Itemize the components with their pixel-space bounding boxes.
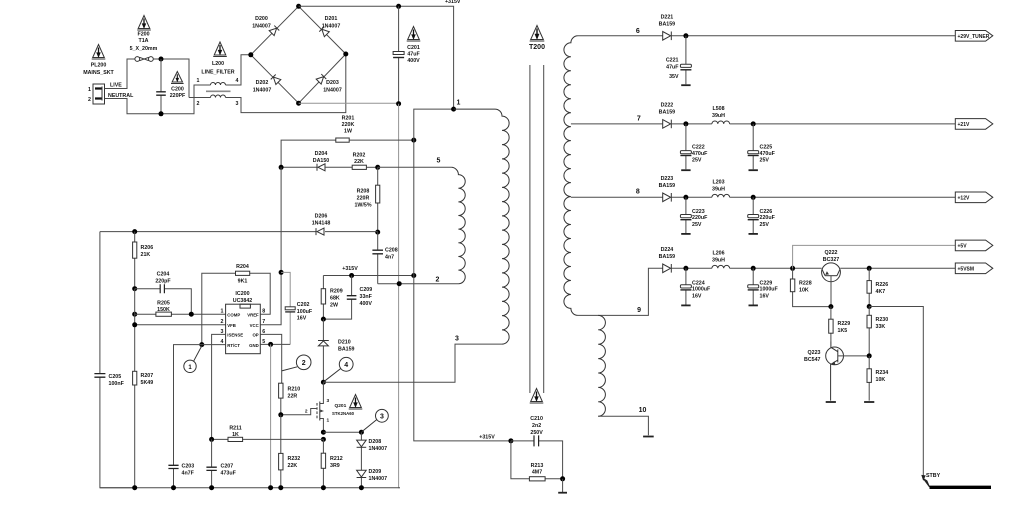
svg-text:C207: C207 [221,464,234,470]
svg-text:VFB: VFB [227,323,236,328]
svg-text:STBY: STBY [926,473,941,479]
svg-text:7: 7 [637,116,641,123]
wire bridge edges [251,6,346,103]
svg-text:R205: R205 [157,301,170,307]
svg-text:BA159: BA159 [659,183,676,189]
svg-text:LIVE: LIVE [110,83,122,89]
resistor R230 [867,307,871,356]
transformer T200 core [530,65,544,393]
svg-text:D204: D204 [315,151,328,157]
diode D203 [316,74,326,84]
wire live to filter pin2 [189,97,211,99]
wire +5V rail mid [730,267,822,269]
svg-text:1N4007: 1N4007 [322,24,341,30]
ground C226 [749,233,758,235]
wire R201 right [349,139,414,141]
svg-text:35V: 35V [669,74,679,80]
junction primary pin1 [451,107,456,112]
svg-text:BA159: BA159 [659,110,676,116]
wire filter pin4 to bridge [226,55,251,85]
transistor Q201 warning triangle [349,395,363,410]
junction Q223 base [867,353,872,358]
transistor Q201 MOSFET [317,382,323,432]
resistor R205 [135,312,226,316]
wire +29V rail [671,35,955,37]
svg-text:D202: D202 [256,80,269,86]
junction C202 tap [279,270,284,275]
junction gate node [278,412,283,417]
svg-text:1N4148: 1N4148 [312,221,331,227]
resistor R207 [133,371,137,487]
IC U200 box [226,304,261,354]
inductor L200 bottom coil [211,95,226,98]
svg-text:1W: 1W [344,129,352,135]
svg-text:100uF: 100uF [297,309,313,315]
resistor R210 [279,383,283,415]
svg-text:1: 1 [327,418,330,424]
capacitor C210 [511,435,563,478]
svg-text:VCC: VCC [250,323,259,328]
svg-text:10K: 10K [876,377,886,383]
svg-text:R206: R206 [141,245,154,251]
flag +5VSM [955,263,993,274]
svg-text:D209: D209 [369,469,382,475]
svg-text:PL200: PL200 [91,63,107,69]
svg-text:Q201: Q201 [335,403,347,409]
svg-text:BC327: BC327 [823,257,840,263]
node STBY arrow [922,476,930,487]
inductor L203 [712,194,730,197]
svg-text:R201: R201 [342,116,355,122]
svg-text:22K: 22K [354,159,364,165]
svg-text:47uF: 47uF [407,52,420,58]
ground pin10 [643,436,654,438]
svg-text:5K49: 5K49 [141,380,154,386]
wire STBY [869,307,923,479]
junction bridge bottom [296,101,301,106]
svg-text:3: 3 [236,101,239,107]
wire GND drop [270,344,272,487]
svg-text:C223: C223 [692,209,705,215]
svg-text:16V: 16V [692,293,702,299]
ground [558,479,567,493]
junction [159,57,164,62]
svg-text:220R: 220R [357,196,370,202]
diode D204 [317,164,325,171]
wire VFB pin2 [135,324,226,326]
junction C204 left [132,286,137,291]
wire pin3 ISENSE [212,334,226,439]
capacitor C208 [372,232,383,284]
svg-text:C222: C222 [692,145,705,151]
svg-text:4M7: 4M7 [532,470,542,476]
svg-text:1N4007: 1N4007 [323,88,342,94]
svg-text:D223: D223 [661,176,674,182]
junction [268,485,273,490]
ground C221 [681,84,690,86]
diode D202 [271,74,281,84]
svg-text:LINE_FILTER: LINE_FILTER [201,70,234,76]
svg-text:16V: 16V [760,293,770,299]
svg-text:220K: 220K [342,122,355,128]
svg-text:R212: R212 [330,456,343,462]
diode D201 [319,27,329,37]
svg-text:D222: D222 [661,103,674,109]
junction [751,121,756,126]
junction [321,485,326,490]
svg-text:R210: R210 [288,387,301,393]
flag +5V [955,240,993,251]
net label 2 circle [282,355,311,371]
svg-text:220PF: 220PF [170,93,186,99]
svg-text:470uF: 470uF [760,151,776,157]
wire pin5 GND [260,343,290,345]
svg-text:22K: 22K [288,463,298,469]
wire primary ground drop [399,104,400,488]
junction [279,165,284,170]
svg-text:R213: R213 [531,463,544,469]
svg-text:RT/CT: RT/CT [227,343,240,348]
capacitor C210 warning triangle [530,389,544,404]
svg-text:BC547: BC547 [804,357,821,363]
svg-text:D201: D201 [325,16,338,22]
ground C224 [681,304,690,306]
wire +12V rail left [671,196,712,198]
wire pin5 [378,166,452,168]
wire pin4 RT/CT [174,345,226,466]
svg-text:1N4007: 1N4007 [369,446,388,452]
svg-text:5: 5 [437,158,441,165]
capacitor C201 warning triangle [407,27,421,42]
svg-text:+315V: +315V [342,266,358,272]
capacitor C229 [748,268,759,304]
wire +5V rail left [671,267,712,269]
diode D208 [357,432,367,470]
svg-text:4n7F: 4n7F [182,471,195,477]
svg-text:R230: R230 [876,317,889,323]
svg-text:R234: R234 [876,370,889,376]
svg-text:68K: 68K [330,296,340,302]
svg-text:220uF: 220uF [692,215,708,221]
wire live to fuse [105,59,135,89]
resistor R201 [336,138,349,142]
ground R234 [864,401,874,403]
junction R206 top [132,229,137,234]
svg-text:R204: R204 [236,264,249,270]
svg-text:16V: 16V [297,316,307,322]
svg-text:473uF: 473uF [221,471,237,477]
svg-text:VREF: VREF [247,312,259,317]
svg-text:4: 4 [236,78,239,84]
svg-text:ISENSE: ISENSE [227,333,243,338]
svg-text:220pF: 220pF [155,279,171,285]
resistor R211 [212,437,324,441]
capacitor C201 [393,6,404,103]
wire fuse to junction [153,59,189,98]
capacitor C224 [680,268,691,304]
svg-text:F200: F200 [137,32,149,38]
wire R202 to pin5 node [366,166,377,168]
junction [132,322,137,327]
junction [132,485,137,490]
svg-text:+12V: +12V [958,196,970,202]
junction R205 right [189,312,194,317]
connector PL200 warning triangle [92,45,106,60]
svg-text:1N4007: 1N4007 [369,476,388,482]
svg-text:21K: 21K [141,252,151,258]
capacitor C205 [94,232,134,488]
junction [508,438,513,443]
svg-text:D221: D221 [661,15,674,21]
svg-text:T200: T200 [529,44,545,51]
junction STBY tap [867,304,872,309]
svg-text:1: 1 [88,87,91,93]
svg-text:3: 3 [327,398,330,404]
inductor L200 top coil [211,83,226,86]
svg-text:R232: R232 [288,456,301,462]
capacitor C209 [323,276,356,320]
junction +315V vertical [411,273,416,278]
svg-text:BA159: BA159 [659,254,676,260]
wire pin3 drain link [323,344,502,382]
svg-text:C201: C201 [407,45,420,51]
svg-text:2: 2 [302,360,306,367]
svg-text:2W: 2W [330,303,338,309]
capacitor C200 [156,59,166,114]
junction [396,101,401,106]
wire filter pin3 to bridge [226,54,346,113]
svg-text:C225: C225 [760,145,773,151]
junction [359,485,364,490]
wire bottom dc link [299,102,399,104]
capacitor C200 warning triangle [171,72,184,84]
svg-text:MAINS_SKT: MAINS_SKT [83,70,114,76]
capacitor C207 [206,439,216,487]
svg-text:C210: C210 [530,416,543,422]
resistor R208 [376,167,380,232]
svg-text:D206: D206 [315,214,328,220]
capacitor C225 [748,124,759,169]
svg-text:25V: 25V [692,157,702,163]
resistor R209 [321,276,325,320]
net label 4 circle [324,357,353,381]
fuse F200 warning triangle [137,16,151,31]
svg-text:100nF: 100nF [109,381,125,387]
junction [359,430,364,435]
svg-text:9: 9 [637,307,641,314]
svg-text:2: 2 [197,101,200,107]
svg-text:2n2: 2n2 [532,423,541,429]
svg-text:COMP: COMP [227,312,240,317]
svg-text:L206: L206 [712,251,724,257]
resistor R234 [867,356,871,401]
svg-text:400V: 400V [360,301,373,307]
junction +5V node [790,266,795,271]
wire pin10 [598,416,648,435]
wire +315V vertical drop [414,109,511,441]
flag +29V_TUNER [955,31,993,42]
svg-text:9K1: 9K1 [238,279,248,285]
junction +5VSM node [867,266,872,271]
svg-text:1N4007: 1N4007 [252,24,271,30]
junction pin2 ground [397,281,402,286]
svg-text:2: 2 [221,319,224,325]
svg-text:R202: R202 [353,153,366,159]
svg-text:250V: 250V [530,430,543,436]
resistor R232 [279,415,283,488]
svg-text:D203: D203 [326,80,339,86]
resistor R204 [202,271,270,344]
svg-text:33K: 33K [876,324,886,330]
ground Q223 [826,401,836,403]
ground C229 [749,304,758,306]
wire +12V rail right [730,196,956,198]
svg-text:IC200: IC200 [235,291,249,297]
transformer T200 5V winding [598,315,605,416]
junction [171,485,176,490]
transistor Q222 [822,263,841,307]
capacitor C203 [168,465,178,487]
svg-text:R228: R228 [799,281,812,287]
junction [683,195,688,200]
svg-text:1000uF: 1000uF [760,287,779,293]
junction [159,111,164,116]
wire pin2 [378,283,459,285]
junction bridge left [248,52,253,57]
net label 1 circle [184,346,202,373]
svg-text:10: 10 [639,407,647,414]
svg-text:3R9: 3R9 [330,463,340,469]
diode D222 [663,120,672,129]
transistor Q223 [826,342,870,401]
junction [751,266,756,271]
svg-text:1: 1 [457,100,461,107]
resistor R213 [511,441,563,481]
wire +21V rail left [671,123,712,125]
svg-text:DA150: DA150 [313,158,330,164]
svg-text:+5V: +5V [958,244,968,250]
junction [209,437,214,442]
svg-text:D208: D208 [369,439,382,445]
flag +12V [955,192,993,203]
svg-text:R208: R208 [357,189,370,195]
svg-text:33nF: 33nF [360,294,373,300]
svg-text:+5VSM: +5VSM [958,267,975,273]
inductor L200 warning triangle [213,42,227,57]
svg-text:D210: D210 [338,340,351,346]
junction [683,121,688,126]
svg-text:STK2NA60: STK2NA60 [332,411,355,416]
svg-text:C203: C203 [182,464,195,470]
wire +315V clamp rail [323,275,413,277]
bus STBY [930,486,992,489]
svg-text:3: 3 [455,336,459,343]
svg-text:R209: R209 [330,289,343,295]
transformer T200 primary winding [454,109,510,344]
svg-text:5_X_20mm: 5_X_20mm [130,46,158,52]
svg-text:L203: L203 [712,180,724,186]
wire VCC vertical [260,167,281,324]
IC U200 notch [240,304,250,308]
svg-text:D200: D200 [255,16,268,22]
junction [278,485,283,490]
svg-text:C202: C202 [297,302,310,308]
wire sense line A [100,231,378,233]
junction [396,4,401,9]
svg-text:Q223: Q223 [808,350,821,356]
junction source node [321,430,326,435]
wire VFB vertical [134,289,136,372]
svg-text:C226: C226 [760,209,773,215]
svg-text:1: 1 [197,78,200,84]
svg-text:L200: L200 [212,61,224,67]
junction R205 left [132,312,137,317]
svg-text:6: 6 [636,28,640,35]
junction drain node [321,380,326,385]
svg-text:D224: D224 [661,247,674,253]
inductor L200 core [206,90,231,92]
svg-text:2: 2 [305,409,308,415]
svg-text:Q222: Q222 [825,250,838,256]
junction R211 tap [321,437,326,442]
svg-text:10K: 10K [799,288,809,294]
svg-text:GND: GND [249,343,259,348]
wire pin6 OP [260,334,281,383]
svg-text:+315V: +315V [479,434,495,440]
wire neutral bottom [105,85,211,114]
wire gate [281,409,317,415]
junction pin5 [268,342,273,347]
svg-text:C229: C229 [760,280,773,286]
svg-text:3: 3 [380,414,384,421]
wire source to clamp [323,431,361,433]
svg-text:1: 1 [221,309,224,315]
junction bridge right [343,52,348,57]
svg-text:+21V: +21V [958,122,970,128]
wire R201 left [281,140,336,167]
svg-text:T1A: T1A [138,38,148,44]
svg-text:+29V_TUNER: +29V_TUNER [958,34,990,40]
svg-text:L508: L508 [712,106,724,112]
junction [751,195,756,200]
junction [411,138,416,143]
svg-text:1N4007: 1N4007 [253,88,272,94]
ground C225 [749,169,758,171]
wire pin9 [578,268,663,315]
wire Q222 collector to +5VSM [840,267,955,269]
capacitor C221 [680,36,691,85]
wire vcc node to D204 [281,166,317,168]
flag +21V [955,119,993,130]
svg-text:R229: R229 [838,321,851,327]
svg-text:470uF: 470uF [692,151,708,157]
capacitor C223 [680,197,691,233]
junction clamp bottom [321,317,326,322]
junction bridge top [296,4,301,9]
svg-text:4: 4 [344,362,348,369]
svg-text:1W/5%: 1W/5% [354,203,371,209]
wire D204 to R202 [325,166,352,168]
junction [683,266,688,271]
svg-text:25V: 25V [760,222,770,228]
svg-text:22R: 22R [288,394,298,400]
wire pin7 tap [571,123,663,125]
fuse F200 [135,57,153,62]
svg-text:8: 8 [636,189,640,196]
wire +21V rail right [730,123,956,125]
svg-text:39uH: 39uH [712,258,725,264]
resistor R202 [352,165,366,169]
